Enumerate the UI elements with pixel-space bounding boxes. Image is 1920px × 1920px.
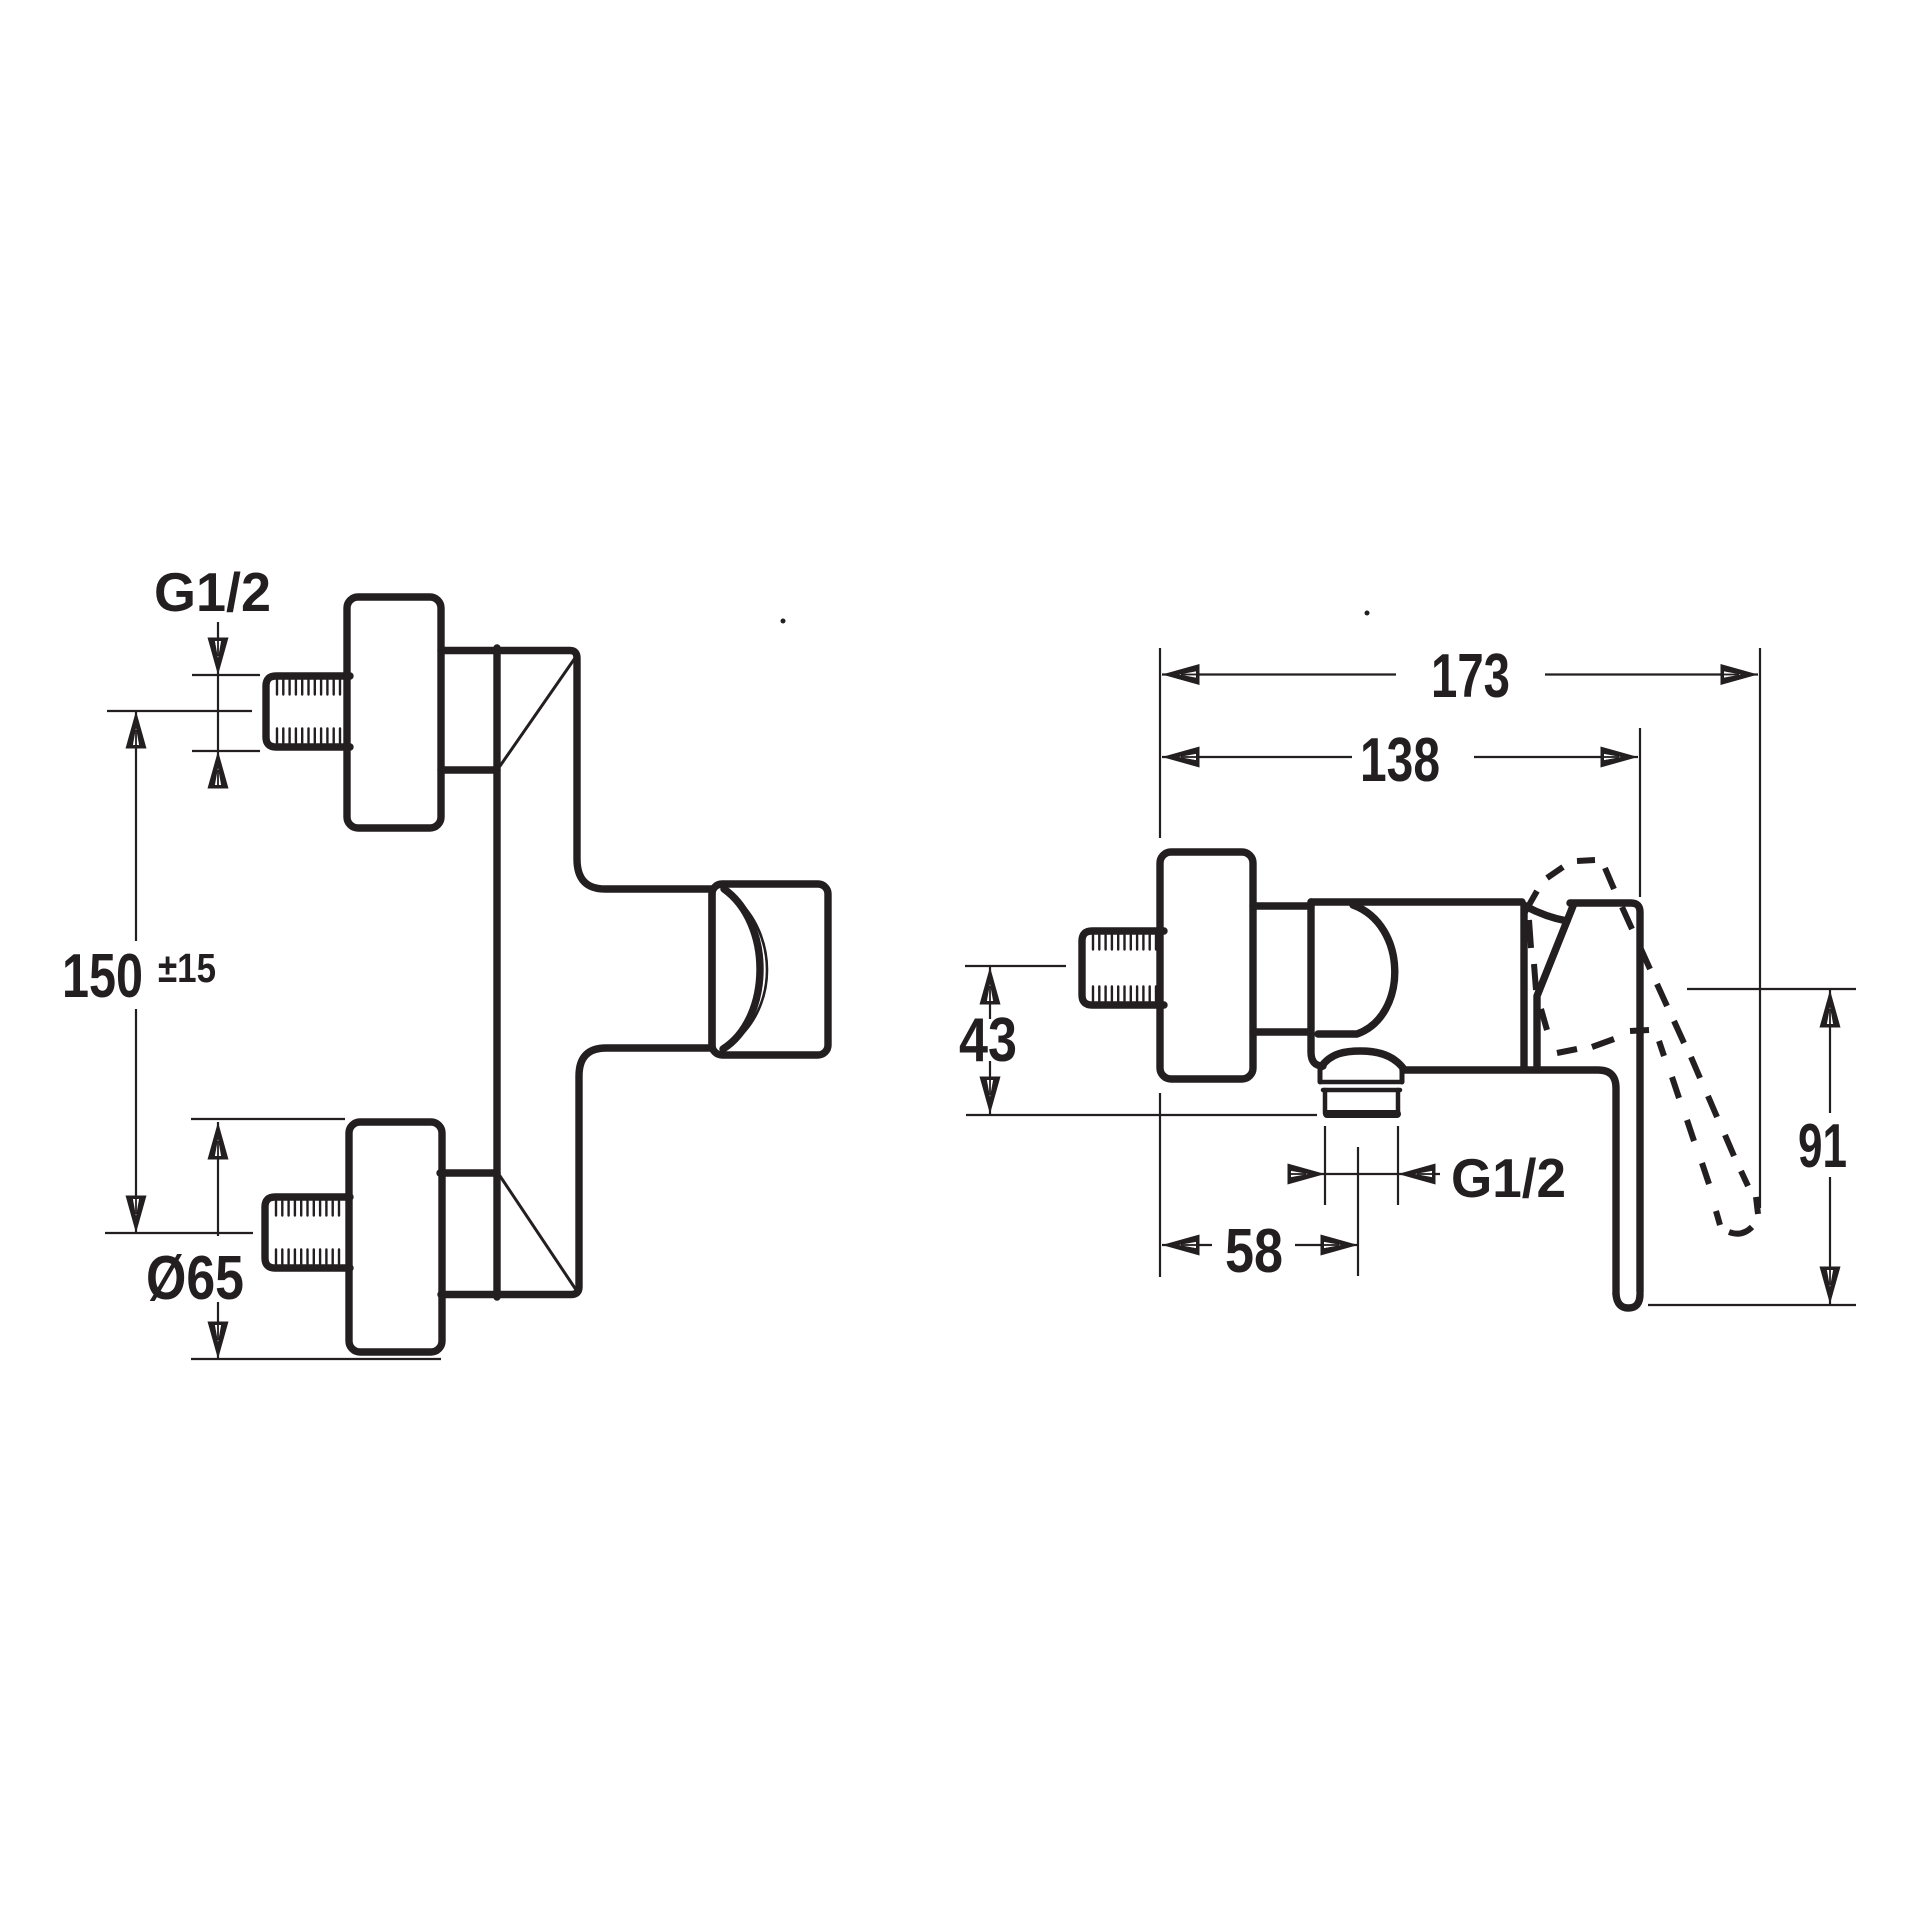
173 right extension line down to dashed lever tip [1759,648,1761,1208]
body neck bottom line (right view) [1253,1028,1308,1035]
91 dimension line and extension lines (right view) [1648,989,1856,1305]
handle lever (closed position, right view) [1616,1294,1640,1308]
stray dot mark right [1365,611,1370,616]
handle base top and right edge (right view) [1570,903,1640,1292]
91 arrows [1820,990,1841,1028]
spout end cap (left view) [712,884,828,1055]
wall plane extension line (right view) [1159,648,1161,1277]
outlet bell dome (right view) [1321,1051,1403,1068]
handle base left curve (right view) [1525,906,1567,921]
outlet bell sides (right view) [1320,1066,1402,1082]
43 arrows [980,967,1001,1005]
138 dimension line (right view) [1162,756,1638,758]
spout cylinder arc thick (left view) [723,889,760,1049]
bottom chamfer diagonal (left view) [500,1176,576,1289]
inlet nipple with thread (right view) [1082,931,1164,1005]
G1/2 outside arrows (right view) [1288,1164,1326,1185]
svg-text:138: 138 [1360,726,1440,795]
body top line (right view) [1311,898,1522,905]
svg-text:150: 150 [62,942,143,1011]
svg-text:G1/2: G1/2 [154,561,271,623]
thread dim arrow down [208,638,229,676]
150 dimension line and extension lines (left view) [105,711,253,1233]
outlet spigot sides (right view) [1325,1090,1398,1113]
bottom wall flange / escutcheon (left view) [349,1122,442,1352]
150 dim arrow down [126,1196,147,1234]
150 dim arrow up [126,711,147,749]
stray dot mark left [781,619,786,624]
dia65 arrow down [208,1322,229,1360]
thread length dimension lines (left view) [192,622,260,786]
138 arrows [1162,747,1200,768]
outlet flange ring (right view) [1321,1082,1402,1090]
58 arrows [1162,1235,1200,1256]
spout cylinder arc thin (left view) [732,897,767,1043]
body end vertical (right view) [1520,905,1527,1068]
bottom connector neck line (left view) [440,1169,497,1176]
58 dimension line (right view) [1162,1244,1358,1246]
svg-text:Ø65: Ø65 [146,1244,244,1313]
faucet body plate outline (left view) [441,648,712,1297]
body neck top line (right view) [1253,902,1311,909]
wall flange / escutcheon (right view) [1160,852,1253,1079]
svg-text:58: 58 [1225,1217,1283,1286]
173 dimension line (right view) [1162,673,1758,675]
58 outlet centerline extension (right view) [1357,1147,1359,1276]
thread dim arrow up [208,751,229,789]
138 right extension line [1639,728,1641,897]
spout joint line (left view) [708,890,715,1048]
body bottom line (right view) [1403,1070,1616,1294]
top inlet nipple with G1/2 thread (left view) [266,676,350,747]
top connector neck between flange and body (left view) [441,766,497,773]
svg-text:173: 173 [1431,642,1510,711]
svg-text:43: 43 [959,1006,1017,1075]
diameter 65 dimension line and extension lines (left view) [191,1119,441,1359]
cartridge dome arc (right view) [1318,905,1395,1034]
top chamfer diagonal (left view) [500,658,575,766]
body housing front vertical and outlet neck curve (right view) [1311,902,1323,1066]
svg-text:91: 91 [1798,1112,1847,1181]
top wall flange / escutcheon (left view) [347,597,441,828]
handle lever open position (dashed, right view) [1525,860,1758,1234]
G1/2 outlet dimension lines (right view) [1299,1126,1440,1205]
bottom inlet nipple with G1/2 thread (left view) [265,1197,350,1268]
svg-text:±15: ±15 [158,945,216,991]
43 dimension line and extension lines (right view) [965,966,1317,1115]
dia65 arrow up [208,1122,229,1160]
svg-text:G1/2: G1/2 [1451,1147,1566,1209]
handle base wedge slant edge (right view) [1537,906,1573,1066]
173 arrows [1162,664,1200,685]
outlet spigot bottom band (right view) [1327,1110,1397,1118]
